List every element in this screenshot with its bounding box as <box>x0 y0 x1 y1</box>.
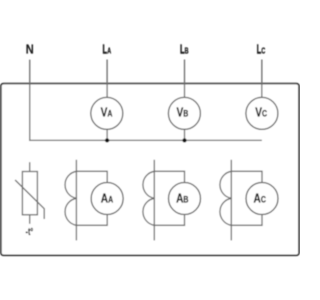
svg-text:A: A <box>107 47 111 55</box>
svg-text:B: B <box>185 47 189 55</box>
svg-text:N: N <box>26 42 34 57</box>
svg-text:C: C <box>261 47 265 55</box>
svg-text:-t°: -t° <box>26 226 34 238</box>
